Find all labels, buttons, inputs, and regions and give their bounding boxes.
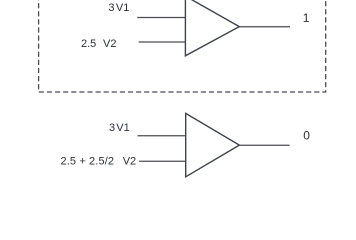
svg-text:V1: V1 — [116, 122, 129, 134]
svg-text:0: 0 — [303, 129, 310, 143]
label 3 V1 (comparator U1 input V1 value) — [108, 2, 129, 14]
label 2.5 V2 (comparator U1 input V2 value) — [81, 38, 116, 50]
wire V1 input to U1 — [137, 17, 186, 19]
svg-text:1: 1 — [303, 11, 310, 25]
svg-text:3: 3 — [109, 122, 115, 134]
svg-text:2.5: 2.5 — [81, 38, 96, 50]
svg-text:3: 3 — [108, 2, 114, 14]
wire U1 output — [239, 26, 290, 28]
op-amp U1 (top comparator triangle, apex right) — [185, 0, 239, 56]
svg-text:2.5 + 2.5/2: 2.5 + 2.5/2 — [61, 155, 115, 167]
wire V2 input to U1 — [139, 41, 186, 43]
wire U2 output — [239, 144, 289, 146]
svg-text:V2: V2 — [123, 155, 136, 167]
wire V1 input to U2 — [138, 135, 187, 137]
svg-text:V1: V1 — [116, 2, 129, 14]
svg-text:V2: V2 — [103, 38, 116, 50]
dashed box (comparator subsystem boundary, top edge cropped) — [39, 0, 326, 92]
label 3 V1 (comparator U2 input V1 value) — [109, 122, 130, 134]
wire V2 input to U2 — [139, 160, 186, 162]
op-amp U2 (bottom comparator triangle, apex right) — [186, 113, 240, 176]
